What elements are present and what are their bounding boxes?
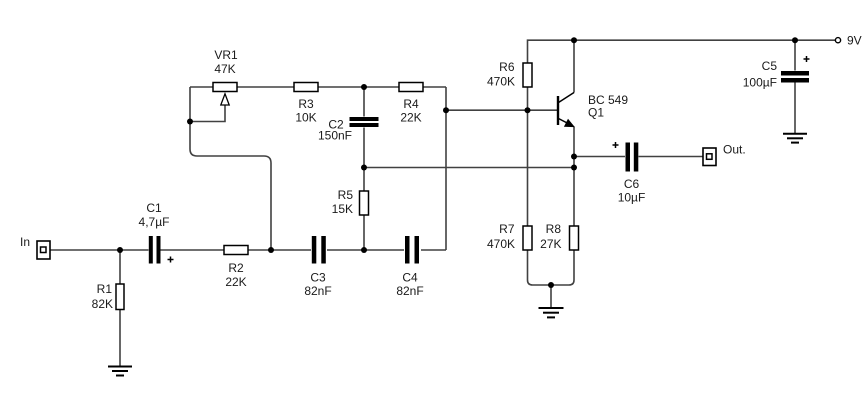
capacitor C6 10uF polarized bbox=[613, 142, 646, 205]
svg-text:R8: R8 bbox=[546, 222, 562, 236]
node collector rail junction bbox=[571, 37, 577, 43]
wire R1 top lead bbox=[119, 250, 121, 284]
capacitor C3 82nF bbox=[304, 236, 331, 298]
wire R8 bottom lead to ground junction bbox=[551, 250, 574, 285]
svg-text:15K: 15K bbox=[332, 202, 353, 216]
wire R6 bottom lead down to R7 top bbox=[527, 87, 529, 226]
svg-text:470K: 470K bbox=[487, 74, 515, 88]
svg-text:R2: R2 bbox=[228, 261, 244, 275]
ground below R7 R8 bbox=[539, 308, 564, 317]
svg-text:Out.: Out. bbox=[723, 143, 746, 157]
wire top rail y=87 from left vertical to R4 and corner bbox=[190, 86, 446, 88]
node R7 R8 ground junction bbox=[548, 282, 554, 288]
ground below C5 bbox=[783, 134, 807, 143]
node riser base junction bbox=[443, 107, 449, 113]
resistor R1 82K bbox=[92, 282, 124, 311]
wire emitter vertical down to R8 bbox=[573, 127, 575, 227]
svg-text:R3: R3 bbox=[298, 97, 314, 111]
node C3 C4 R5 junction bbox=[361, 247, 367, 253]
terminal 9V bbox=[835, 34, 861, 48]
svg-text:27K: 27K bbox=[540, 237, 561, 251]
wire collector vertical to rail bbox=[573, 40, 575, 92]
wire C2 top lead bbox=[363, 87, 365, 117]
svg-text:C5: C5 bbox=[762, 59, 778, 73]
svg-text:VR1: VR1 bbox=[214, 48, 238, 62]
capacitor C4 82nF bbox=[396, 236, 423, 298]
svg-text:47K: 47K bbox=[214, 62, 235, 76]
svg-text:22K: 22K bbox=[225, 275, 246, 289]
wire base line y=110.5 from riser to transistor base bbox=[446, 109, 557, 111]
capacitor C1 4,7uF polarized bbox=[139, 201, 174, 264]
svg-text:100µF: 100µF bbox=[743, 76, 777, 90]
wire ground stem below R7 R8 bbox=[550, 285, 552, 308]
resistor R6 470K bbox=[487, 60, 532, 89]
svg-text:150nF: 150nF bbox=[318, 129, 352, 143]
wire R7 bottom lead to ground junction bbox=[528, 250, 552, 285]
svg-text:Q1: Q1 bbox=[588, 106, 604, 120]
wire emitter branch to C6 bbox=[574, 156, 625, 158]
svg-text:82K: 82K bbox=[92, 297, 113, 311]
svg-text:9V: 9V bbox=[847, 34, 862, 48]
transistor Q1 BC 549 bbox=[558, 93, 628, 127]
wire C2 bottom lead bbox=[363, 128, 365, 168]
wire C3 to C4 bbox=[327, 249, 404, 251]
resistor R7 470K bbox=[487, 222, 532, 251]
capacitor C2 150nF bbox=[318, 117, 379, 143]
svg-text:82nF: 82nF bbox=[396, 284, 423, 298]
resistor R3 10K bbox=[294, 83, 318, 125]
wire R5 top lead bbox=[363, 168, 365, 192]
resistor R5 15K bbox=[332, 188, 369, 216]
wire left vertical x=190 with S-bend to x=271 down to bottom wire bbox=[190, 87, 271, 250]
wire C5 top lead from rail bbox=[794, 40, 796, 70]
node emitter feedback junction bbox=[571, 165, 577, 171]
svg-text:C1: C1 bbox=[146, 201, 162, 215]
resistor R4 22K bbox=[399, 83, 423, 125]
node R2 C3 junction bbox=[268, 247, 274, 253]
resistor R8 27K bbox=[540, 222, 578, 251]
node R6 R7 base junction bbox=[525, 107, 531, 113]
wire R2 to C3 bbox=[248, 249, 311, 251]
node emitter C6 junction bbox=[571, 154, 577, 160]
svg-text:R1: R1 bbox=[97, 282, 113, 296]
resistor R2 22K bbox=[224, 246, 248, 290]
node C2 R5 feedback junction bbox=[361, 165, 367, 171]
svg-text:C3: C3 bbox=[310, 271, 326, 285]
svg-text:In: In bbox=[20, 235, 30, 249]
wire input line from In connector to C1 bbox=[50, 249, 149, 251]
svg-text:470K: 470K bbox=[487, 237, 515, 251]
svg-text:10K: 10K bbox=[295, 111, 316, 125]
ground below R1 bbox=[108, 367, 132, 376]
capacitor C5 100uF polarized bbox=[743, 56, 810, 90]
wire C1 to R2 bbox=[161, 249, 225, 251]
wire R1 bottom lead to ground bbox=[119, 309, 121, 366]
svg-text:R4: R4 bbox=[403, 97, 419, 111]
svg-text:10µF: 10µF bbox=[618, 191, 646, 205]
wire right riser vertical x=446 from top rail to bottom wire bbox=[445, 87, 447, 250]
svg-text:R7: R7 bbox=[499, 222, 515, 236]
svg-text:R6: R6 bbox=[499, 60, 515, 74]
connector Out bbox=[703, 143, 746, 166]
node In C1 R1 junction bbox=[117, 247, 123, 253]
svg-text:4,7µF: 4,7µF bbox=[139, 215, 170, 229]
wire C4 to right riser corner bbox=[421, 249, 446, 251]
node VR1 wiper junction bbox=[187, 119, 193, 125]
wire C5 bottom lead to ground bbox=[794, 83, 796, 134]
svg-text:22K: 22K bbox=[400, 111, 421, 125]
potentiometer VR1 47K bbox=[213, 48, 238, 105]
wire R5 bottom lead bbox=[363, 215, 365, 250]
wire R6 top lead and top supply rail y=39.5 bbox=[528, 40, 836, 63]
node rail C5 junction bbox=[792, 37, 798, 43]
wire feedback line y=167.5 from C2/R5 node to emitter bbox=[364, 167, 574, 169]
svg-text:R5: R5 bbox=[338, 188, 354, 202]
svg-text:C4: C4 bbox=[402, 271, 418, 285]
wire VR1 wiper horizontal to left vertical bbox=[190, 105, 225, 122]
connector In bbox=[20, 235, 50, 259]
svg-text:C6: C6 bbox=[624, 177, 640, 191]
svg-text:82nF: 82nF bbox=[304, 284, 331, 298]
wire C6 to Out connector bbox=[639, 156, 704, 158]
node rail C2 junction bbox=[361, 84, 367, 90]
